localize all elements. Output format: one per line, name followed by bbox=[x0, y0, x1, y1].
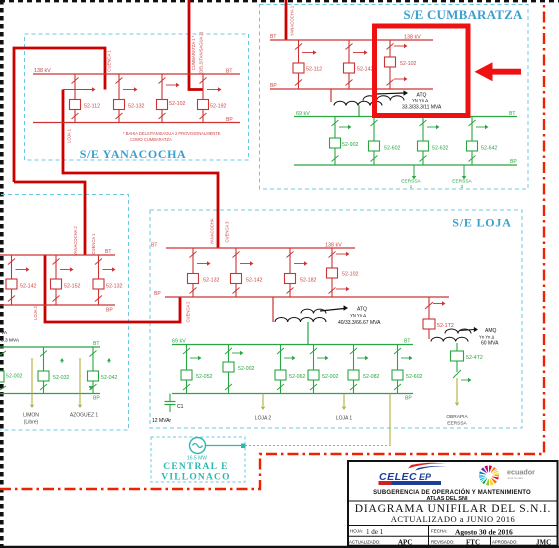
svg-text:REVISADO:: REVISADO: bbox=[431, 540, 454, 545]
svg-text:52-182: 52-182 bbox=[300, 278, 317, 284]
svg-text:BT: BT bbox=[509, 111, 515, 117]
bus CUMBARATZA 69kV BP bbox=[294, 159, 517, 165]
svg-text:HOJA:: HOJA: bbox=[350, 529, 363, 534]
breaker 52-632 CUMBARATZA bbox=[418, 117, 449, 166]
feeder EERSSA 1 bbox=[401, 165, 421, 190]
breaker 52-142 LOJA bbox=[231, 248, 263, 297]
title block text bbox=[373, 488, 531, 502]
svg-text:69 kV: 69 kV bbox=[296, 111, 310, 117]
breaker 52-152 CUENCA bbox=[51, 255, 81, 305]
svg-text:BP: BP bbox=[270, 83, 277, 89]
breaker 52-902 CUMBARATZA bbox=[330, 117, 359, 166]
bus LOJA 69kV BP bbox=[172, 394, 413, 402]
svg-text:52-142: 52-142 bbox=[357, 67, 374, 73]
breaker 52-142 CUENCA bbox=[6, 255, 37, 305]
svg-text:69 kV: 69 kV bbox=[172, 339, 186, 345]
svg-text:CUENCA 3: CUENCA 3 bbox=[225, 221, 230, 243]
svg-text:52-632: 52-632 bbox=[432, 146, 449, 152]
wire villonaco link bbox=[245, 394, 390, 446]
svg-text:52-082: 52-082 bbox=[363, 374, 380, 380]
svg-text:52-1T2: 52-1T2 bbox=[437, 323, 454, 329]
feeder LOJA 2 bbox=[255, 394, 272, 422]
node CUENCA 1 (YANACOCHA feeder label) bbox=[107, 50, 112, 72]
substation box S/E CUMBARATZA bbox=[260, 5, 529, 190]
bus CUENCA 69kV BT bbox=[0, 341, 100, 347]
svg-text:S/E LOJA: S/E LOJA bbox=[452, 216, 511, 230]
svg-text:BT: BT bbox=[270, 34, 276, 40]
breaker 52-1T2 LOJA bbox=[423, 297, 454, 339]
breaker 52-102 LOJA bbox=[327, 248, 359, 297]
page border bottom bbox=[0, 546, 559, 548]
svg-text:52-642: 52-642 bbox=[481, 146, 498, 152]
svg-text:52-042: 52-042 bbox=[101, 375, 118, 381]
wire 138kV line from top into YANACOCHA (CUMBARATZA 1) bbox=[189, 0, 203, 90]
page border top bbox=[0, 0, 559, 2]
svg-text:CUENCA 2: CUENCA 2 bbox=[186, 301, 191, 323]
svg-text:BT: BT bbox=[93, 341, 99, 347]
feeder LOJA 1 bbox=[336, 394, 353, 422]
svg-text:Yn Yn Δ: Yn Yn Δ bbox=[479, 335, 494, 340]
svg-text:LOJA 2: LOJA 2 bbox=[33, 305, 38, 319]
logo ecuador ama la vida bbox=[478, 465, 535, 487]
svg-text:VILLONACO: VILLONACO bbox=[161, 473, 230, 483]
bus LOJA 138kV BT bbox=[151, 243, 355, 249]
wire 138kV top-left loop to CUENCA 1 bbox=[14, 48, 105, 182]
svg-text:YN Yn Δ: YN Yn Δ bbox=[412, 98, 428, 103]
substation box S/E YANACOCHA bbox=[25, 34, 249, 160]
wire transfer line YANACOCHA bbox=[63, 87, 96, 91]
svg-text:52-132: 52-132 bbox=[106, 284, 123, 290]
node feeder labels CUENCA bbox=[73, 226, 96, 256]
bus YANACOCHA 138kV BT bbox=[33, 68, 240, 75]
breaker 52-142 CUMBARATZA bbox=[344, 40, 374, 89]
svg-text:52-602: 52-602 bbox=[384, 146, 401, 152]
svg-text:BT: BT bbox=[105, 249, 111, 255]
svg-text:CENTRAL E: CENTRAL E bbox=[163, 462, 228, 472]
breaker 52-4T2 LOJA bbox=[451, 343, 483, 382]
breaker 52-082 LOJA bbox=[348, 345, 380, 394]
svg-text:VA: VA bbox=[1, 330, 8, 336]
svg-text:YANACOCHA 1: YANACOCHA 1 bbox=[290, 5, 295, 36]
svg-text:BT: BT bbox=[404, 339, 410, 345]
title S/E LOJA bbox=[452, 216, 511, 230]
svg-text:52-102: 52-102 bbox=[400, 61, 417, 67]
svg-text:APROBADO:: APROBADO: bbox=[492, 540, 518, 545]
breaker 52-132 CUENCA bbox=[93, 255, 123, 305]
svg-text:BP: BP bbox=[226, 117, 233, 123]
svg-text:BP: BP bbox=[405, 396, 412, 402]
breaker 52-052 LOJA bbox=[181, 345, 213, 394]
svg-text:* BAHIA DELSITANISAGUA 2 PROVI: * BAHIA DELSITANISAGUA 2 PROVISIONALMENT… bbox=[123, 131, 221, 136]
svg-text:BP: BP bbox=[106, 308, 113, 314]
breaker 52-132 LOJA bbox=[188, 248, 220, 297]
breaker 52-002 LOJA bbox=[223, 345, 255, 394]
substation box S/E LOJA bbox=[150, 210, 522, 428]
highlight box around breaker 52-102 and ATQ bbox=[375, 26, 469, 116]
big red callout arrow bbox=[475, 62, 522, 81]
svg-text:BT: BT bbox=[151, 243, 157, 249]
svg-text:ama la vida: ama la vida bbox=[508, 476, 524, 480]
bus YANACOCHA BP bbox=[33, 117, 240, 123]
svg-text:ACTUALIZADO:: ACTUALIZADO: bbox=[349, 540, 380, 545]
svg-text:S/E YANACOCHA: S/E YANACOCHA bbox=[80, 147, 187, 161]
transformer ATQ LOJA 40/33.3/66.67 MVA bbox=[273, 297, 381, 345]
logo CELEC EP bbox=[379, 463, 449, 485]
title block frame bbox=[348, 461, 558, 546]
svg-text:52-132: 52-132 bbox=[128, 104, 145, 110]
svg-text:52-132: 52-132 bbox=[203, 278, 220, 284]
node CUMBARATZA 1 (DELSITANISAGUA 2) label bbox=[191, 31, 204, 74]
breaker 52-102 CUMBARATZA (highlighted bay) bbox=[385, 40, 417, 89]
node LOJA 2 interconnect label bbox=[33, 305, 38, 319]
svg-text:33.3/33.3/11 MVA: 33.3/33.3/11 MVA bbox=[402, 105, 442, 111]
svg-text:3.3 MVA: 3.3 MVA bbox=[1, 338, 20, 344]
label CENTRAL E VILLONACO bbox=[161, 462, 230, 483]
svg-text:CUENCA 1: CUENCA 1 bbox=[91, 233, 96, 255]
svg-text:52-142: 52-142 bbox=[20, 284, 37, 290]
bus CUENCA 69kV BP bbox=[0, 394, 100, 402]
svg-text:52-102: 52-102 bbox=[342, 272, 359, 278]
node YANACOCHA / CUENCA 3 feeder labels LOJA bbox=[210, 218, 230, 244]
bus CUENCA 138kV BT bbox=[0, 249, 115, 255]
note BAHIA DELSITANISAGUA provisional bbox=[123, 131, 221, 142]
svg-text:1 de 1: 1 de 1 bbox=[366, 528, 384, 536]
breaker 52-042 CUENCA bbox=[88, 347, 118, 394]
svg-text:EERSSA: EERSSA bbox=[401, 179, 421, 185]
bus LOJA 69kV BT bbox=[172, 339, 413, 345]
feeder EERSSA 2 bbox=[452, 165, 472, 190]
breaker 52-182 LOJA bbox=[285, 248, 317, 297]
svg-text:JMC: JMC bbox=[536, 539, 551, 547]
svg-text:40/33.3/66.67 MVA: 40/33.3/66.67 MVA bbox=[338, 320, 381, 326]
svg-text:CUMBARATZA 1 *: CUMBARATZA 1 * bbox=[191, 35, 196, 70]
page border left (perforation) bbox=[0, 0, 4, 548]
svg-text:52-602: 52-602 bbox=[406, 374, 423, 380]
svg-text:BP: BP bbox=[510, 159, 517, 165]
svg-text:CUENCA 1: CUENCA 1 bbox=[107, 50, 112, 72]
svg-text:52-002: 52-002 bbox=[322, 374, 339, 380]
transformer ATQ CUMBARATZA 33.3/33.3/11 MVA bbox=[331, 89, 442, 117]
svg-text:S/E CUMBARATZA: S/E CUMBARATZA bbox=[403, 7, 523, 22]
breaker 52-002b LOJA bbox=[308, 345, 339, 394]
substation box S/E CUENCA (partial, left edge) bbox=[0, 195, 129, 431]
wire YANACOCHA 1 feeder into CUMBARATZA bbox=[285, 0, 288, 40]
breaker 52-602 CUMBARATZA bbox=[369, 117, 401, 166]
svg-text:AMQ: AMQ bbox=[485, 328, 497, 334]
svg-text:YANACOCHA 2: YANACOCHA 2 bbox=[73, 226, 78, 256]
svg-text:138 kV: 138 kV bbox=[325, 243, 342, 249]
svg-text:EERSSA: EERSSA bbox=[452, 179, 472, 185]
title S/E CUMBARATZA bbox=[403, 7, 523, 22]
title S/E YANACOCHA bbox=[80, 147, 187, 161]
svg-text:BT: BT bbox=[226, 69, 232, 75]
svg-text:BP: BP bbox=[93, 396, 100, 402]
svg-text:BP: BP bbox=[154, 291, 161, 297]
svg-text:COMO CUMBARATZA: COMO CUMBARATZA bbox=[130, 137, 172, 142]
svg-text:52-112: 52-112 bbox=[306, 67, 322, 73]
breaker 52-192 YANACOCHA bbox=[198, 74, 227, 123]
svg-text:52-032: 52-032 bbox=[53, 375, 70, 381]
node LOJA 1 (YANACOCHA feeder label) bbox=[67, 128, 72, 143]
svg-text:(DELSITANISAGUA 2): (DELSITANISAGUA 2) bbox=[199, 31, 204, 74]
svg-text:138 kV: 138 kV bbox=[404, 35, 421, 41]
svg-text:LOJA 2: LOJA 2 bbox=[255, 416, 272, 422]
capacitor C1 12 MVAr bbox=[152, 394, 184, 425]
svg-text:YN Yn Δ: YN Yn Δ bbox=[350, 313, 366, 318]
svg-text:52-152: 52-152 bbox=[64, 284, 81, 290]
svg-text:12 MVAr: 12 MVAr bbox=[152, 418, 171, 424]
wire YANACOCHA LOJA 1 feeder to S/E LOJA bbox=[63, 90, 218, 249]
wire into S/E CUENCA bus bbox=[14, 182, 85, 255]
svg-text:52-062: 52-062 bbox=[289, 374, 306, 380]
bus LOJA 138kV BP bbox=[154, 291, 449, 297]
svg-text:LOJA 1: LOJA 1 bbox=[67, 128, 72, 143]
svg-text:FECHA:: FECHA: bbox=[431, 529, 448, 534]
svg-text:C1: C1 bbox=[177, 404, 184, 410]
svg-text:52-102: 52-102 bbox=[169, 101, 186, 107]
bus CUMBARATZA 69kV BT bbox=[294, 111, 517, 117]
breaker 52-602 LOJA bbox=[392, 345, 423, 394]
node YANACOCHA 1 feeder label CUMBARATZA bbox=[290, 5, 295, 36]
svg-text:2: 2 bbox=[461, 184, 464, 190]
svg-text:ACTUALIZADO a JUNIO 2016: ACTUALIZADO a JUNIO 2016 bbox=[391, 514, 516, 524]
breaker 52-032 CUENCA bbox=[38, 347, 70, 394]
svg-text:52-112: 52-112 bbox=[84, 104, 100, 110]
svg-text:1: 1 bbox=[410, 184, 413, 190]
svg-text:Agosto 30 de 2016: Agosto 30 de 2016 bbox=[455, 528, 513, 537]
generator CENTRAL EOLICA VILLONACO 16.5 MW bbox=[187, 438, 207, 462]
svg-text:LIMON: LIMON bbox=[23, 413, 39, 419]
bus CUENCA 138kV BP bbox=[0, 305, 115, 314]
svg-text:52-002: 52-002 bbox=[238, 366, 255, 372]
breaker 52-112 CUMBARATZA bbox=[293, 40, 322, 89]
svg-text:OBRAPIA: OBRAPIA bbox=[446, 414, 468, 420]
svg-text:52-142: 52-142 bbox=[246, 278, 263, 284]
svg-text:138 kV: 138 kV bbox=[34, 68, 51, 74]
substation box CENTRAL E VILLONACO bbox=[151, 437, 245, 482]
feeder OBRAPIA EERSSA bbox=[446, 378, 468, 427]
breaker 52-132 YANACOCHA bbox=[114, 74, 145, 123]
svg-text:ATQ: ATQ bbox=[357, 307, 367, 313]
svg-text:APC: APC bbox=[398, 539, 412, 547]
breaker 52-112 YANACOCHA bbox=[70, 74, 101, 123]
svg-text:FTC: FTC bbox=[466, 539, 480, 547]
svg-text:52-052: 52-052 bbox=[196, 374, 213, 380]
feeder AZOGUEZ 1 bbox=[70, 358, 99, 419]
svg-text:EERSSA: EERSSA bbox=[447, 421, 467, 427]
breaker 52-062 LOJA bbox=[275, 345, 306, 394]
breaker 52-002 CUENCA bbox=[0, 347, 23, 394]
svg-text:SUBGERENCIA DE OPERACIÓN Y: SUBGERENCIA DE OPERACIÓN Y MANTENIMIENTO bbox=[373, 488, 531, 496]
svg-text:LOJA 1: LOJA 1 bbox=[336, 416, 353, 422]
breaker 52-642 CUMBARATZA bbox=[467, 117, 498, 166]
feeder LIMON (Libre) bbox=[23, 358, 39, 426]
svg-text:EP: EP bbox=[419, 472, 432, 482]
svg-text:52-4T2: 52-4T2 bbox=[466, 355, 483, 361]
svg-text:52-002: 52-002 bbox=[6, 374, 23, 380]
svg-text:16.5 MW: 16.5 MW bbox=[187, 456, 207, 462]
breaker 52-102 YANACOCHA bbox=[157, 74, 186, 123]
svg-text:ATLAS DEL SNI: ATLAS DEL SNI bbox=[426, 496, 468, 502]
bus CUMBARATZA 138kV BT bbox=[270, 34, 433, 41]
svg-text:(Libre): (Libre) bbox=[24, 420, 39, 426]
wire generator tie bbox=[206, 444, 246, 449]
bus CUMBARATZA BP bbox=[270, 83, 433, 89]
svg-text:52-902: 52-902 bbox=[342, 142, 359, 148]
svg-text:YANACOCHA: YANACOCHA bbox=[210, 218, 215, 244]
node CUENCA 2 feeder label LOJA bbox=[186, 301, 191, 323]
transformer AMQ 60 MVA bbox=[431, 327, 499, 347]
wire LOJA CUENCA 2 interconnection bbox=[45, 255, 180, 322]
svg-text:52-192: 52-192 bbox=[210, 104, 227, 110]
svg-text:AZOGUEZ 1: AZOGUEZ 1 bbox=[70, 413, 99, 419]
transformer rating fragment bbox=[1, 330, 20, 344]
svg-text:60 MVA: 60 MVA bbox=[481, 341, 499, 347]
